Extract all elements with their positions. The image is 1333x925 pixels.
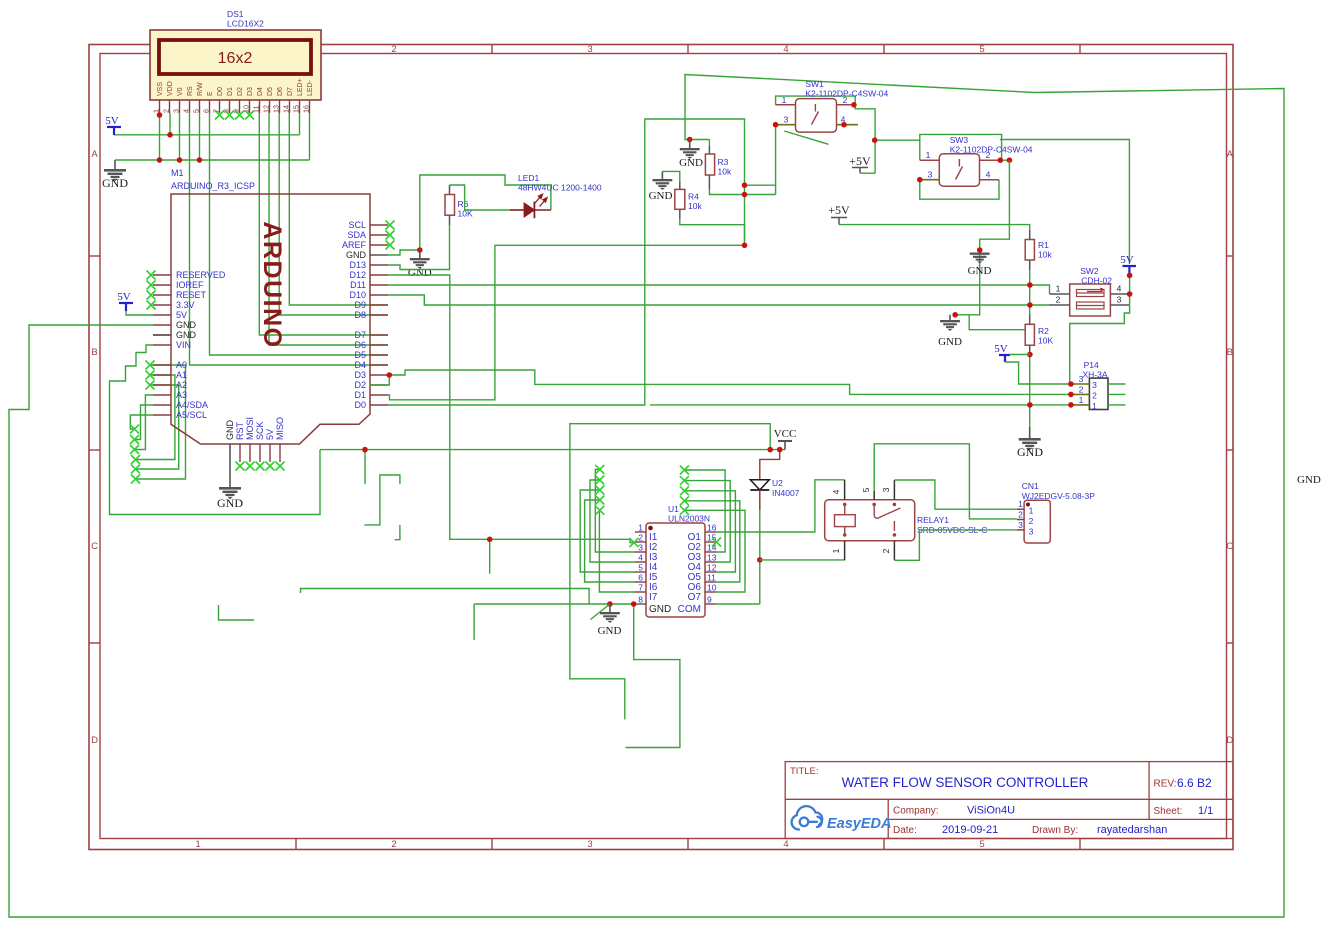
wire A3 hook to X3 <box>135 395 154 450</box>
svg-text:WATER FLOW SENSOR CONTROLLER: WATER FLOW SENSOR CONTROLLER <box>842 775 1089 790</box>
svg-text:rayatedarshan: rayatedarshan <box>1097 824 1167 836</box>
wire SW3 pin1-pin2 top U <box>920 134 1002 160</box>
ground GND (SW3 lower) <box>952 312 958 318</box>
resistor R4 <box>679 182 681 189</box>
svg-text:A1: A1 <box>176 370 187 380</box>
wire LCD pin15 LED+ <box>299 113 301 135</box>
svg-text:GND: GND <box>968 265 992 277</box>
wire SW3 pin2 ext <box>1002 159 1010 161</box>
svg-text:GND: GND <box>598 625 622 637</box>
switch SW1 internal lever <box>814 104 816 112</box>
wire U1 O3 hook <box>684 470 725 552</box>
wire U1 I5 hook <box>580 490 635 572</box>
svg-text:C: C <box>1226 541 1233 552</box>
no-connect X stack right of U1 <box>680 466 689 475</box>
svg-text:C: C <box>91 541 98 552</box>
wire U2 cathode down <box>759 490 761 510</box>
wire U1 I3 hook <box>595 470 635 553</box>
svg-text:VCC: VCC <box>774 428 797 440</box>
svg-text:13: 13 <box>271 105 280 113</box>
Arduino bottom GND pin + ground <box>229 444 231 487</box>
switch SW3 pins <box>920 159 940 161</box>
Arduino left pin labels <box>176 270 226 420</box>
svg-text:D7: D7 <box>287 87 294 96</box>
wire relay pin3 to CN1 pin1 <box>894 480 1017 509</box>
svg-text:R4: R4 <box>688 192 699 202</box>
border frame outer <box>89 45 1233 850</box>
LCD pin stubs <box>160 100 310 113</box>
svg-text:5: 5 <box>979 44 984 55</box>
svg-text:D4: D4 <box>257 87 264 96</box>
svg-text:GND: GND <box>679 157 703 169</box>
switch SW1 body <box>796 99 837 133</box>
wire R4 bottom rail <box>680 219 745 245</box>
wire relay pin2 to CN1 pin3 <box>894 530 1017 560</box>
svg-text:LED-: LED- <box>307 79 314 96</box>
svg-text:5V: 5V <box>176 310 187 320</box>
wire dangling small L <box>395 525 400 540</box>
ground GND (below R2 / near CN1) <box>1019 438 1041 450</box>
svg-text:GND: GND <box>102 176 128 190</box>
wire LCD D6 to D8 <box>279 113 388 315</box>
LED LED1 <box>510 209 524 211</box>
svg-text:3: 3 <box>587 44 592 55</box>
wire dangling mid horizontal <box>301 589 590 605</box>
wire relay pin5 to CN1 pin2 <box>874 444 1017 519</box>
svg-text:LCD16X2: LCD16X2 <box>227 19 264 29</box>
svg-text:D6: D6 <box>277 87 284 96</box>
wire junction to relay pin1 <box>760 559 845 561</box>
Arduino right pin labels <box>342 220 367 410</box>
svg-text:4: 4 <box>638 553 643 563</box>
svg-text:D13: D13 <box>349 260 366 270</box>
svg-text:B: B <box>91 347 97 358</box>
svg-text:ARDUINO_R3_ICSP: ARDUINO_R3_ICSP <box>171 181 255 191</box>
svg-text:TITLE:: TITLE: <box>790 766 819 777</box>
Arduino left pin stubs <box>153 275 171 415</box>
switch SW3 internal lever <box>958 159 960 167</box>
LCD no-connect X pins 7-10 <box>215 111 224 120</box>
wire U1 I6 hook <box>585 500 635 582</box>
LCD inner display <box>159 40 311 74</box>
svg-text:5V: 5V <box>1120 254 1134 266</box>
svg-text:5V: 5V <box>117 291 131 303</box>
svg-text:4: 4 <box>181 109 190 113</box>
wire LCD 5V rail <box>114 134 300 136</box>
IC U1 pin numbers <box>638 523 716 605</box>
svg-text:LED+: LED+ <box>297 78 304 96</box>
svg-text:1: 1 <box>195 839 200 850</box>
wire branch to R2 left <box>969 315 1025 330</box>
connector P14 body <box>1089 378 1108 409</box>
wire R3 bottom rail <box>709 189 775 195</box>
svg-text:48HW4UC 1200-1400: 48HW4UC 1200-1400 <box>518 183 602 193</box>
wire GND diagonal artifact <box>591 604 610 620</box>
svg-text:5: 5 <box>638 563 643 573</box>
svg-text:2: 2 <box>1056 295 1061 305</box>
svg-text:D0: D0 <box>354 400 366 410</box>
svg-text:14: 14 <box>281 105 290 113</box>
svg-text:5V: 5V <box>994 343 1008 355</box>
LCD pin name labels <box>157 78 314 96</box>
wire SW3 pin3-pin4 bottom U <box>920 180 999 200</box>
relay RELAY1 body <box>825 500 915 541</box>
svg-text:2: 2 <box>1029 516 1034 526</box>
wire U1 O1 to relay coil <box>716 480 845 532</box>
ground GND (SW3 upper) <box>977 247 983 253</box>
wire D10 to SW2 pin2 <box>388 295 1049 305</box>
svg-text:Sheet:: Sheet: <box>1154 806 1183 817</box>
svg-text:3: 3 <box>171 109 180 113</box>
svg-text:D8: D8 <box>354 310 366 320</box>
svg-text:1: 1 <box>1018 499 1023 509</box>
svg-text:1: 1 <box>638 523 643 533</box>
Arduino right no-connect X marks SCL SDA AREF <box>386 221 395 230</box>
border row letters <box>91 149 1234 746</box>
svg-text:D: D <box>1226 735 1233 746</box>
node VCC rail dots <box>362 447 368 453</box>
svg-text:10k: 10k <box>1038 250 1052 260</box>
node D3 junction <box>387 372 393 378</box>
svg-text:R6: R6 <box>458 199 469 209</box>
svg-text:O7: O7 <box>688 592 702 603</box>
node P14 junction dots <box>1068 381 1074 387</box>
wire Arduino 5V pin <box>126 311 153 315</box>
no-connect X stack left of Arduino <box>130 425 139 434</box>
Arduino second GND stub dangling <box>153 334 171 336</box>
svg-text:GND: GND <box>176 320 197 330</box>
ground GND (U1) <box>609 604 611 612</box>
svg-text:1: 1 <box>926 150 931 160</box>
svg-text:RST: RST <box>235 421 245 440</box>
svg-text:D4: D4 <box>354 360 366 370</box>
IC U1 no-connect X pin2 pin15 <box>630 538 639 547</box>
ground GND (R4) <box>661 171 663 179</box>
wire D13 to R6 <box>388 225 450 270</box>
svg-text:RS: RS <box>187 86 194 96</box>
connector CN1 pin stubs <box>1017 508 1024 510</box>
svg-text:MISO: MISO <box>275 417 285 440</box>
wire 5V to P14 pin3 <box>1005 362 1071 384</box>
svg-text:A: A <box>91 149 98 160</box>
svg-text:D: D <box>91 735 98 746</box>
resistor R3 <box>708 145 710 154</box>
svg-text:REV:: REV: <box>1154 779 1177 790</box>
svg-text:GND: GND <box>1017 445 1043 459</box>
relay pin leads <box>844 480 846 500</box>
svg-text:2: 2 <box>391 44 396 55</box>
svg-text:5: 5 <box>191 109 200 113</box>
svg-text:3: 3 <box>1018 520 1023 530</box>
wire LCD D7 to D9 <box>289 113 388 305</box>
IC U1 pin name labels <box>649 532 701 615</box>
svg-text:1: 1 <box>1029 506 1034 516</box>
svg-text:4: 4 <box>783 839 788 850</box>
svg-text:16x2: 16x2 <box>218 50 253 67</box>
svg-text:5V: 5V <box>265 429 275 440</box>
connector P14 pin stubs left <box>1071 383 1090 385</box>
svg-text:GND: GND <box>217 496 243 510</box>
svg-text:RESET: RESET <box>176 290 207 300</box>
svg-text:10: 10 <box>707 583 717 593</box>
wire R4 top to GND <box>662 171 679 182</box>
wire U1 I4 hook <box>590 480 635 562</box>
wire VCC upper branch (to relay coil net) <box>570 424 770 720</box>
wire D12 to U1 I2 <box>388 275 633 543</box>
wire U1 O4 hook <box>684 481 730 562</box>
svg-text:D10: D10 <box>349 290 366 300</box>
svg-text:R/W: R/W <box>197 82 204 96</box>
border column numbers <box>195 44 984 850</box>
svg-text:IN4007: IN4007 <box>772 488 800 498</box>
LED1 arrows <box>535 194 547 206</box>
wire LCD D4 to D7 <box>259 113 388 335</box>
svg-text:3: 3 <box>784 115 789 125</box>
wire LCD pin16 LED- <box>309 113 311 160</box>
wire D3/D2 node <box>370 375 389 385</box>
wire A5/SCL hook to X1 <box>130 415 153 429</box>
wire D0 net continuation to P14 pin1 <box>650 404 1071 406</box>
svg-text:SW1: SW1 <box>805 79 824 89</box>
wire D11 to R1 bottom / SW2 pin1 <box>388 284 1030 286</box>
svg-text:M1: M1 <box>171 168 184 178</box>
node +5V junction <box>872 137 878 143</box>
wire 5V to SW2 pins 4 and 3 <box>1129 275 1131 305</box>
node R chain junction dots <box>1027 282 1033 288</box>
IC U1 right pin stubs <box>705 532 716 604</box>
wire LCD D5 to D6 <box>269 113 388 345</box>
svg-text:CN1: CN1 <box>1022 481 1039 491</box>
svg-text:3: 3 <box>638 543 643 553</box>
svg-text:5V: 5V <box>105 115 119 127</box>
svg-text:GND: GND <box>225 420 235 441</box>
svg-text:GND: GND <box>649 604 671 615</box>
svg-text:AREF: AREF <box>342 240 367 250</box>
node GND junction <box>417 247 423 253</box>
svg-text:D5: D5 <box>354 350 366 360</box>
IC U1 body <box>646 523 705 617</box>
svg-text:VDD: VDD <box>167 81 174 96</box>
svg-text:D11: D11 <box>350 280 366 290</box>
svg-text:1/1: 1/1 <box>1198 805 1213 817</box>
svg-text:D12: D12 <box>349 270 366 280</box>
svg-text:SCK: SCK <box>255 421 265 440</box>
svg-text:5: 5 <box>861 487 871 492</box>
wire R1 bottom to D11 node <box>1029 270 1031 285</box>
svg-text:D1: D1 <box>227 87 234 96</box>
border ticks <box>89 45 1233 850</box>
wire +5V to R1 top <box>839 225 1030 230</box>
wire SW1 diagonal artifact <box>784 131 828 144</box>
wire LCD E to D5 <box>210 113 389 355</box>
svg-text:6: 6 <box>638 573 643 583</box>
svg-text:4: 4 <box>1117 284 1122 294</box>
ground GND (LCD) <box>114 160 116 169</box>
border frame inner <box>100 54 1227 839</box>
svg-text:D6: D6 <box>354 340 366 350</box>
svg-text:GND: GND <box>346 250 367 260</box>
svg-text:2: 2 <box>881 548 891 553</box>
SW3 junction dots <box>917 177 923 183</box>
wire LCD RS to D4 <box>190 113 389 365</box>
wire +5V stem to node <box>860 172 875 174</box>
svg-text:Drawn By:: Drawn By: <box>1032 825 1078 836</box>
svg-text:B: B <box>1227 347 1233 358</box>
svg-text:A0: A0 <box>176 360 187 370</box>
svg-text:2: 2 <box>161 109 170 113</box>
svg-text:VSS: VSS <box>157 82 164 96</box>
svg-text:2019-09-21: 2019-09-21 <box>942 824 998 836</box>
svg-text:ULN2003N: ULN2003N <box>668 514 710 524</box>
svg-text:5: 5 <box>979 839 984 850</box>
svg-text:GND: GND <box>1297 474 1321 486</box>
wire U1 GND net down right <box>626 604 680 748</box>
wire U1 O5 hook <box>684 491 735 572</box>
svg-text:D3: D3 <box>354 370 366 380</box>
IC U1 left pin stubs <box>635 532 646 604</box>
wire SW2 pin3 to P14 pin3 <box>1070 305 1130 384</box>
wire Arduino VIN staircase to VCC rail <box>110 345 321 515</box>
wire A2 hook to X5 <box>136 385 179 469</box>
node junction dots D0/D1 net <box>742 182 748 188</box>
svg-text:D0: D0 <box>217 87 224 96</box>
connector P14 right stubs <box>1108 383 1126 385</box>
wire SW3 pin2 to ground stack <box>955 160 1009 315</box>
svg-text:7: 7 <box>638 583 643 593</box>
title block lines <box>785 762 1233 839</box>
wire LCD pin5 RW <box>199 113 201 160</box>
ground GND (R3 / page loop) <box>689 140 691 149</box>
wire LCD pin2 VDD <box>169 113 171 135</box>
svg-text:1: 1 <box>831 548 841 553</box>
wire U1 O6 hook <box>684 501 739 582</box>
svg-text:6.6 B2: 6.6 B2 <box>1177 776 1212 790</box>
svg-text:VIN: VIN <box>176 340 191 350</box>
switch SW2 pin stubs <box>1050 293 1070 295</box>
svg-text:12: 12 <box>707 563 717 573</box>
svg-text:R1: R1 <box>1038 240 1049 250</box>
wire U1 I7 hook <box>599 510 635 592</box>
svg-text:2: 2 <box>843 95 848 105</box>
resistor R6 <box>449 185 451 195</box>
wire D0 to P14 pin1 rail <box>388 119 745 405</box>
svg-text:3: 3 <box>1117 295 1122 305</box>
svg-text:3: 3 <box>1092 380 1097 390</box>
node D12 junction + tail <box>489 539 491 573</box>
svg-text:2: 2 <box>1092 391 1097 401</box>
svg-text:D5: D5 <box>267 87 274 96</box>
diode U2 IN4007 <box>750 480 769 490</box>
wire 5V bar to R2 bottom <box>1009 354 1030 356</box>
switch SW2 arrow <box>1087 288 1102 292</box>
switch SW1 pins <box>776 104 796 106</box>
svg-text:RESERVED: RESERVED <box>176 270 226 280</box>
wire SW1 pin1-pin2 top U <box>776 96 856 105</box>
node U2/relay/COM junction <box>757 557 763 563</box>
Arduino bottom pin labels <box>225 417 285 440</box>
svg-text:RELAY1: RELAY1 <box>917 515 949 525</box>
Arduino M1 body <box>171 194 370 444</box>
wire A1 hook to X4 <box>136 375 175 460</box>
svg-text:DS1: DS1 <box>227 9 244 19</box>
svg-text:11: 11 <box>707 573 716 583</box>
SW1 junction dots <box>851 102 857 108</box>
svg-text:SCL: SCL <box>348 220 366 230</box>
Arduino bottom pin stubs <box>240 444 280 462</box>
relay coil <box>835 515 856 527</box>
wire dangling pi-shape <box>364 475 400 525</box>
svg-text:IOREF: IOREF <box>176 280 204 290</box>
svg-text:1: 1 <box>1092 401 1097 411</box>
svg-text:A2: A2 <box>176 380 187 390</box>
wire A4/SDA hook to X2 <box>135 405 154 440</box>
svg-text:U2: U2 <box>772 478 783 488</box>
svg-text:D2: D2 <box>237 87 244 96</box>
svg-text:D1: D1 <box>354 390 366 400</box>
LCD junction dots <box>157 112 163 118</box>
svg-text:1: 1 <box>1056 284 1061 294</box>
Arduino right pin stubs <box>370 225 388 405</box>
svg-text:4: 4 <box>831 489 841 494</box>
EasyEDA logo <box>792 806 823 829</box>
svg-text:U1: U1 <box>668 504 679 514</box>
svg-text:15: 15 <box>291 105 300 113</box>
svg-text:3.3V: 3.3V <box>176 300 195 310</box>
svg-text:GND: GND <box>176 330 197 340</box>
wire SW3 top to SW2 5V line <box>1000 140 1129 265</box>
svg-text:3: 3 <box>1079 374 1084 384</box>
wire R6 top to LED anode <box>450 185 511 210</box>
svg-text:+5V: +5V <box>828 203 850 217</box>
svg-text:COM: COM <box>678 604 701 615</box>
switch SW2 slide elements <box>1077 290 1105 297</box>
wire D1 to SW1 net <box>388 245 745 399</box>
svg-text:2: 2 <box>1079 385 1084 395</box>
svg-text:3: 3 <box>1029 527 1034 537</box>
svg-text:SW2: SW2 <box>1080 266 1099 276</box>
svg-text:D2: D2 <box>354 380 366 390</box>
svg-text:GND: GND <box>649 190 673 202</box>
no-connect X stack left of U1 <box>595 465 604 474</box>
svg-text:4: 4 <box>986 170 991 180</box>
svg-text:A5/SCL: A5/SCL <box>176 410 207 420</box>
node U1 GND dots <box>607 601 613 607</box>
node GND R3 junction <box>687 137 693 143</box>
svg-text:10K: 10K <box>1038 336 1053 346</box>
svg-text:+5V: +5V <box>849 154 871 168</box>
svg-text:2: 2 <box>638 533 643 543</box>
wire LCD pin3 V0 <box>179 113 181 160</box>
svg-text:16: 16 <box>707 523 717 533</box>
svg-text:GND: GND <box>938 336 962 348</box>
wire +5V node to SW3 pin1 <box>875 139 920 141</box>
svg-text:MOSI: MOSI <box>245 417 255 440</box>
svg-text:I7: I7 <box>649 592 658 603</box>
svg-text:E: E <box>207 91 214 96</box>
svg-text:1: 1 <box>1079 395 1084 405</box>
wire VCC rail <box>320 449 785 451</box>
Arduino left no-connect X marks <box>147 271 156 280</box>
svg-text:9: 9 <box>707 595 712 605</box>
wire A0 hook to X6 <box>136 365 186 479</box>
svg-text:A: A <box>1227 149 1234 160</box>
wire U1 GND row <box>474 603 635 605</box>
svg-text:D7: D7 <box>354 330 366 340</box>
relay switch contacts <box>872 503 876 507</box>
svg-text:2: 2 <box>1018 510 1023 520</box>
svg-text:V0: V0 <box>177 87 184 96</box>
svg-text:3: 3 <box>881 487 891 492</box>
